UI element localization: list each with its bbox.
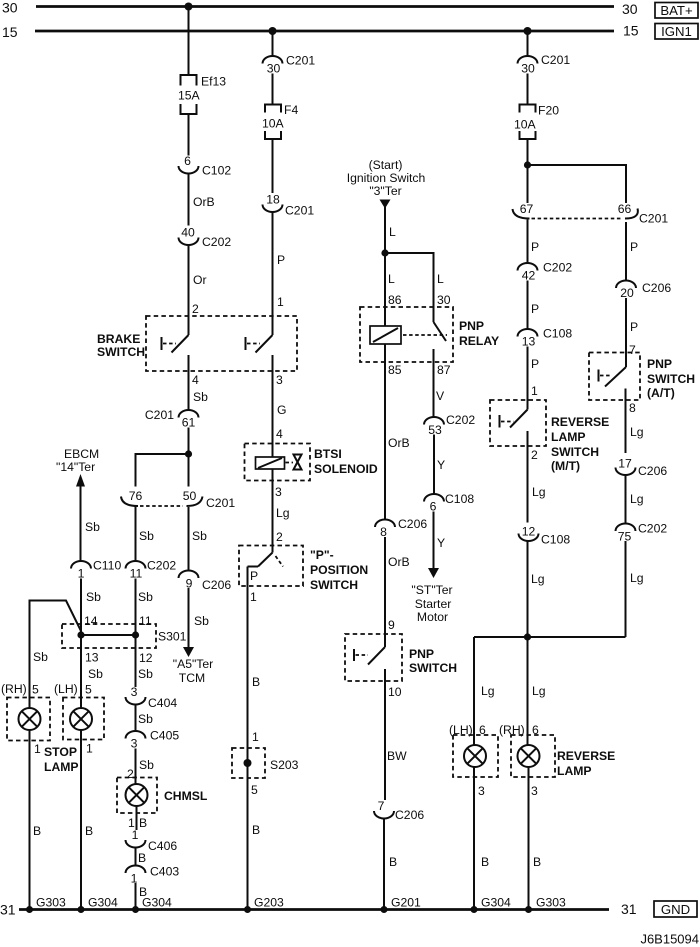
svg-text:B: B [33,824,41,838]
wire: 67 to C202-42, P [528,220,540,264]
svg-text:3: 3 [478,784,485,798]
wire: ignition arrow to relay junction, L [385,207,396,253]
svg-text:4: 4 [192,373,199,387]
svg-text:1: 1 [86,742,93,756]
svg-text:C206: C206 [638,464,667,478]
wire: C202 to brake switch, Or, pin 2 [189,245,207,335]
svg-text:CHMSL: CHMSL [164,789,208,803]
wire: C206-9 to TCM arrow, Sb [189,588,210,647]
svg-text:53: 53 [428,423,442,437]
wire: brake switch pin 3 to BTSI, G, pin 4 [273,373,287,457]
connector C201 pin 30 (fuse F20 feed) [518,53,571,76]
svg-text:REVERSE: REVERSE [551,415,609,429]
BTSI solenoid coil [256,457,294,469]
svg-text:G304: G304 [88,896,118,910]
svg-text:14: 14 [84,614,98,628]
svg-text:(LH): (LH) [54,682,78,696]
wire: bus30 down to fuse Ef13 [188,7,190,76]
wire: C202-53 to C108-6, Y [434,435,445,495]
svg-text:P: P [531,240,539,254]
connector C403 pin 1 [126,865,180,886]
drawing number J6B15094 [640,932,699,947]
wire: C108-12 to lamp junction, Lg [528,541,545,637]
wire: C108-6 to starter arrow, Y [434,512,446,569]
svg-text:C206: C206 [202,578,231,592]
connector C201 pin 30 (fuse F4 feed) [263,54,316,76]
ground G201 [381,896,422,914]
svg-text:11: 11 [139,614,152,628]
svg-text:G303: G303 [36,896,66,910]
wire: C202-75 to lamp junction, Lg [626,541,644,637]
brake switch contact 2 [246,335,273,380]
svg-text:3: 3 [131,685,138,699]
svg-text:IGN1: IGN1 [661,24,692,39]
svg-text:Ef13: Ef13 [201,75,226,89]
wire: C102 to C202, OrB [189,174,215,226]
svg-text:Sb: Sb [86,590,101,604]
svg-text:30: 30 [267,62,281,76]
connector C206 pin 20 [616,281,671,301]
svg-text:Y: Y [437,458,445,472]
svg-text:8: 8 [629,401,636,415]
svg-text:87: 87 [437,363,451,377]
connector C202 pin 40 [179,226,232,250]
wire: C404 to C405, Sb [136,705,154,732]
connector C202 pin 53 [424,413,475,437]
wire: branch left to pin 76 [136,454,189,487]
svg-text:BRAKE: BRAKE [97,332,140,346]
svg-text:P: P [250,569,258,583]
svg-text:Lg: Lg [532,684,546,698]
stop lamp RH [7,698,50,757]
GND terminal box [654,901,697,917]
ground G304 (LH stop lamp) [78,896,119,914]
connector C102 pin 6 [179,154,232,178]
svg-text:42: 42 [522,269,536,283]
svg-text:S203: S203 [270,758,299,772]
svg-text:C102: C102 [202,164,231,178]
wire: rail down to LH reverse lamp, Lg [474,637,495,745]
svg-text:GND: GND [661,902,690,917]
svg-text:85: 85 [388,363,402,377]
svg-text:P: P [531,302,539,316]
wire: C110 to S301, Sb, pin 14 [81,579,101,636]
svg-text:13: 13 [85,651,99,665]
svg-text:20: 20 [620,286,634,300]
ground G304 (LH reverse lamp) [471,896,512,914]
svg-text:B: B [252,823,260,837]
wire: junction down to pin 67 [527,165,529,203]
svg-text:L: L [389,225,396,239]
svg-text:SWITCH: SWITCH [409,661,457,675]
fuse F20 10A [514,104,559,140]
wire: CHMSL pin 1 to C406, B [128,806,147,830]
svg-text:Sb: Sb [139,529,154,543]
wire: RH reverse lamp to G303, B [529,767,542,910]
svg-text:11: 11 [130,567,143,581]
arrow from (Start) Ignition Switch "3"Ter [347,158,426,209]
svg-text:S301: S301 [158,630,187,644]
svg-text:G203: G203 [254,896,284,910]
reverse lamp switch (M/T) dashed box [490,400,609,473]
svg-text:13: 13 [522,335,536,349]
IGN1 terminal box [655,24,698,40]
wire: junction to relay contact pin 30 [385,253,451,322]
svg-text:B: B [138,851,146,865]
node: junction on bus 30 at x=188.5 [185,3,193,11]
svg-text:50: 50 [183,489,197,503]
wire: junction down to RH reverse lamp, Lg [528,637,546,745]
svg-text:J6B15094: J6B15094 [640,932,699,947]
svg-text:15: 15 [623,23,639,39]
svg-text:B: B [481,855,489,869]
wire: PNP switch pin 10 to C206-7, BW [387,685,407,763]
splice S203 [232,748,299,778]
ground G203 [244,896,284,914]
svg-text:10: 10 [388,685,402,699]
wire: switch pin 2 to C108-12, Lg [528,446,546,523]
stop lamp caption [44,745,79,774]
connector C201 pin 61 [145,408,199,430]
svg-text:Sb: Sb [193,390,208,404]
svg-text:2: 2 [531,448,538,462]
reverse lamp caption [557,749,615,778]
bus 30 (BAT+) [2,0,638,17]
svg-text:17: 17 [618,457,632,471]
svg-text:LAMP: LAMP [557,764,592,778]
wire: junction branch right to pin 66 [528,165,627,203]
connector C108 pin 12 [519,525,571,547]
connector C206 pin 9 [179,571,232,592]
svg-text:Sb: Sb [192,529,207,543]
wire: fuse F4 to C201-18 [272,139,274,193]
svg-text:OrB: OrB [193,195,215,209]
svg-text:Motor: Motor [417,610,448,624]
svg-text:86: 86 [388,293,402,307]
wire: S301 pin 12 to C404, Sb [136,635,154,687]
wire: C201-61 down to junction [188,428,190,487]
svg-text:Sb: Sb [194,614,209,628]
svg-text:15: 15 [2,24,18,40]
svg-text:G303: G303 [536,896,566,910]
bus 15 (IGN1) [2,23,639,41]
wire: C206-7 to G201, B [384,819,397,910]
wire: C201-18 to brake switch, P, pin 1 [273,212,286,335]
svg-text:SOLENOID: SOLENOID [314,462,378,476]
svg-text:PNP: PNP [459,319,484,333]
wire: 50 to C206-9, Sb [189,507,208,571]
node: junction above C201 76/50 [185,450,192,457]
svg-text:BAT+: BAT+ [660,3,693,18]
svg-text:L: L [437,272,444,286]
brake switch contact 1 [162,335,189,380]
wire: RH stop lamp to G303, B [30,730,42,910]
BTSI valve symbol [294,455,302,470]
connector C202 pin 11 [126,559,177,581]
wire: BTSI pin 3 to P-position switch, Lg, pin 2 [273,469,290,553]
svg-text:Lg: Lg [630,571,644,585]
svg-text:67: 67 [520,202,534,216]
svg-text:SWITCH: SWITCH [551,445,599,459]
"P"-position switch contact [248,553,284,584]
svg-text:C108: C108 [445,492,474,506]
wire: branch from S301 to RH stop lamp [30,601,82,709]
svg-text:C206: C206 [398,517,427,531]
svg-text:P: P [277,253,285,267]
CHMSL lamp [126,784,148,806]
BAT+ terminal box [655,3,698,19]
wire: C202-42 to C108-13, P [528,281,540,330]
svg-text:C201: C201 [286,54,315,68]
svg-text:SWITCH: SWITCH [647,372,695,386]
svg-text:B: B [252,675,260,689]
svg-text:1: 1 [250,590,257,604]
svg-text:5: 5 [251,783,258,797]
svg-text:15A: 15A [178,89,201,103]
svg-text:C206: C206 [395,808,424,822]
wire: fuse Ef13 to C102 [188,114,190,156]
svg-text:C206: C206 [642,281,671,295]
svg-text:10A: 10A [514,118,537,132]
svg-text:3: 3 [276,373,283,387]
svg-text:10A: 10A [262,117,285,131]
svg-text:Sb: Sb [138,667,153,681]
PNP switch (A/T) contact [599,367,627,400]
wire: C201-30 to fuse F20 [527,74,529,105]
connector C206 pin 7 [374,799,424,822]
wire: C108-13 to reverse lamp switch, P, pin 1 [528,347,540,410]
wire: C206-20 to PNP switch (A/T), P, pin 7 [626,298,638,367]
svg-text:2: 2 [276,530,283,544]
splice S301 [62,624,187,648]
connector C201 pins 76/50 [121,489,235,510]
svg-text:C202: C202 [147,559,176,573]
svg-text:(Start): (Start) [369,158,403,172]
wire: P-position pin 1 down, B [248,567,261,779]
svg-text:30: 30 [521,62,535,76]
stop lamp LH [63,698,104,756]
svg-text:P: P [630,240,638,254]
svg-text:7: 7 [629,343,636,357]
wire: C206-17 to C202-75, Lg [626,475,644,524]
svg-text:Lg: Lg [630,425,644,439]
svg-text:P: P [531,357,539,371]
svg-text:1: 1 [132,828,139,842]
wire: relay pin 87 to C202-53, V [434,349,451,418]
connector C206 pin 8 [375,517,427,539]
svg-text:C202: C202 [202,235,231,249]
wire: relay pin 85 labels [388,363,410,450]
arrow to "ST"Ter starter motor [411,568,452,624]
svg-text:B: B [85,824,93,838]
wire: C206-8 to PNP switch, OrB, pin 9 [385,537,410,647]
svg-text:1: 1 [34,742,41,756]
svg-text:(A/T): (A/T) [647,386,675,400]
svg-text:7: 7 [378,799,385,813]
connector C110 pin 1 [71,559,121,581]
svg-text:PNP: PNP [647,357,672,371]
svg-text:2: 2 [127,767,134,781]
svg-text:G: G [277,403,286,417]
svg-text:30: 30 [437,293,451,307]
svg-text:31: 31 [621,901,637,917]
CHMSL dashed box [117,778,208,814]
svg-text:C202: C202 [446,413,475,427]
svg-text:9: 9 [388,618,395,632]
svg-text:61: 61 [182,416,196,430]
svg-text:3: 3 [131,737,138,751]
wire: fuse F20 to junction [527,139,529,165]
wire: junction down to relay coil pin 86, L [385,253,402,520]
svg-text:1: 1 [131,872,138,886]
svg-text:TCM: TCM [179,671,205,685]
svg-text:31: 31 [0,902,16,918]
svg-text:C405: C405 [150,729,179,743]
node: junction on bus 15 at x=272.5 [269,27,277,35]
svg-text:G304: G304 [481,896,511,910]
svg-text:5: 5 [32,683,39,697]
svg-text:"P"-: "P"- [310,548,334,562]
svg-text:BTSI: BTSI [314,447,342,461]
arrow from EBCM "14"Ter [56,447,99,487]
svg-text:1: 1 [78,567,85,581]
ground G303 (RH reverse lamp) [525,896,566,914]
svg-text:C202: C202 [638,522,667,536]
wire: brake switch pin 4 to C201, Sb [189,373,209,410]
svg-text:"3"Ter: "3"Ter [369,184,401,198]
wire: reverse lamp feed rail [474,636,626,638]
svg-text:F4: F4 [284,103,298,117]
svg-text:Sb: Sb [139,758,154,772]
LH reverse lamp label [449,723,486,737]
svg-text:RELAY: RELAY [459,334,499,348]
LH stop lamp label [54,682,92,697]
wire: bus15 down to C201-30 [272,31,274,56]
svg-text:6: 6 [430,500,437,514]
node: junction feeding relay coil and contact [381,249,388,256]
connector C206 pin 17 [616,457,668,479]
svg-text:Sb: Sb [138,590,153,604]
svg-text:Starter: Starter [415,597,452,611]
svg-text:Lg: Lg [481,684,495,698]
wire: 76 to C202-11, Sb [136,507,155,561]
node: junction on bus 15 at x=527.5 [524,27,532,35]
"P"-position switch dashed box [239,546,368,593]
svg-text:OrB: OrB [388,555,410,569]
svg-text:B: B [389,855,397,869]
node: junction feeding pins 67 and 66 [524,161,531,168]
svg-text:PNP: PNP [409,647,434,661]
svg-text:(RH): (RH) [1,682,27,696]
connector C201 pins 67/66 [513,202,669,226]
svg-text:3: 3 [275,485,282,499]
svg-text:76: 76 [129,489,143,503]
svg-text:F20: F20 [538,104,559,118]
svg-text:C201: C201 [145,408,174,422]
reverse lamp LH [453,735,498,798]
BTSI solenoid dashed box [245,444,378,481]
svg-text:Lg: Lg [531,572,545,586]
svg-text:LAMP: LAMP [44,760,79,774]
svg-text:30: 30 [622,1,638,17]
connector C201 pin 18 [263,193,315,218]
svg-text:SWITCH: SWITCH [310,578,358,592]
PNP relay dashed box [360,307,499,362]
RH reverse lamp label [499,723,539,737]
bus 31 (GND) [0,901,637,918]
svg-text:LAMP: LAMP [551,430,586,444]
connector C108 pin 13 [518,327,573,349]
svg-text:G304: G304 [142,896,172,910]
wire: 66 to C206-20, P [626,222,638,281]
svg-text:L: L [388,272,395,286]
wire: S203 pin 5 down to G203, B [248,778,261,910]
arrow to TCM [173,647,214,685]
svg-text:STOP: STOP [44,745,77,759]
svg-text:3: 3 [531,784,538,798]
svg-text:Lg: Lg [276,506,290,520]
svg-text:1: 1 [277,295,284,309]
svg-text:Sb: Sb [33,650,48,664]
PNP switch dashed box [345,634,457,681]
wire: bus15 down to C201-30 (right) [527,31,529,57]
svg-text:Y: Y [437,536,445,550]
PNP switch (A/T) dashed box [589,353,695,401]
svg-text:12: 12 [139,651,153,665]
connector C404 pin 3 [126,685,178,710]
wire: S301 pin 13 to LH stop lamp, Sb [81,635,103,709]
svg-text:Sb: Sb [138,712,153,726]
connector C108 pin 6 [424,492,474,514]
wire: C201-30 to fuse F4 [272,74,274,105]
svg-text:5: 5 [85,683,92,697]
svg-text:Or: Or [193,273,207,287]
wire: A/T switch pin 8 to C206-17, Lg [626,400,644,453]
reverse lamp RH [511,735,555,798]
svg-text:"ST"Ter: "ST"Ter [411,583,452,597]
svg-text:Lg: Lg [532,485,546,499]
connector C202 pin 75 [616,522,668,544]
svg-text:4: 4 [276,427,283,441]
svg-text:G201: G201 [391,896,421,910]
svg-text:C110: C110 [93,559,121,573]
svg-text:C201: C201 [639,212,668,226]
PNP relay contact [434,322,447,362]
svg-text:OrB: OrB [388,436,410,450]
svg-text:2: 2 [192,302,199,316]
connector C405 pin 3 [126,729,180,751]
svg-text:REVERSE: REVERSE [557,749,615,763]
fuse F4 10A [262,103,298,139]
svg-text:BW: BW [387,749,407,763]
svg-text:Sb: Sb [88,667,103,681]
PNP relay coil-contact link [403,334,447,336]
wire: LH reverse lamp to G304, B [474,767,489,910]
wire: C202-11 to S301 pin 11, Sb [136,579,154,636]
svg-text:C403: C403 [150,865,179,879]
svg-text:18: 18 [266,193,280,207]
svg-text:Sb: Sb [85,520,100,534]
connector C202 pin 42 [518,261,573,283]
svg-text:C108: C108 [541,533,570,547]
wire: C405 to CHMSL, Sb, pin 2 [127,749,154,785]
svg-text:EBCM: EBCM [64,447,99,461]
svg-text:Lg: Lg [630,492,644,506]
svg-text:C406: C406 [148,839,177,853]
svg-text:30: 30 [2,0,18,16]
svg-text:C201: C201 [541,53,570,67]
svg-text:C108: C108 [543,327,572,341]
